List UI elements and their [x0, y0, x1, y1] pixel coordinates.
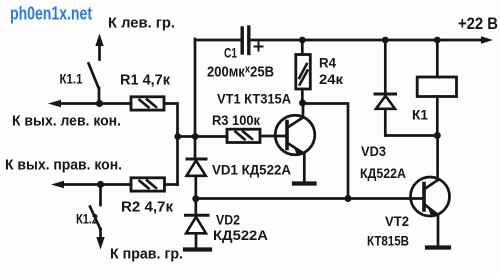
ground VD2 — [185, 247, 210, 251]
node junction relay/VD3 — [434, 132, 441, 139]
svg-text:VD3: VD3 — [361, 143, 386, 159]
switch K1.2 — [90, 185, 105, 250]
wire C1 left drop — [194, 39, 197, 157]
node junction R4 bus — [299, 37, 306, 44]
svg-text:C1: C1 — [224, 45, 237, 61]
svg-text:VD1 КД522А: VD1 КД522А — [212, 162, 291, 178]
wire VT1 collector — [302, 104, 305, 118]
diode VD3 — [375, 40, 396, 136]
svg-text:КД522А: КД522А — [360, 165, 406, 181]
svg-text:К вых. прав. кон.: К вых. прав. кон. — [5, 158, 122, 174]
wire R2 right — [165, 183, 178, 186]
node junction base wire — [345, 195, 352, 202]
svg-text:R3 100к: R3 100к — [212, 112, 261, 128]
capacitor C1 — [242, 27, 262, 54]
transistor VT1 — [275, 115, 315, 156]
svg-text:R1 4,7к: R1 4,7к — [120, 73, 171, 89]
diode VD1 — [187, 159, 207, 199]
resistor R3 — [227, 129, 260, 142]
wire VD3 bottom — [385, 134, 437, 137]
svg-text:24к: 24к — [319, 71, 344, 87]
node junction K1.1 — [96, 100, 103, 107]
svg-text:+22 В: +22 В — [458, 14, 498, 33]
wire VT2 emitter — [437, 215, 440, 246]
svg-text:VD2: VD2 — [216, 212, 240, 228]
svg-text:VT1 КТ315А: VT1 КТ315А — [217, 91, 291, 107]
wire R1 right — [164, 104, 178, 185]
transistor VT2 — [411, 177, 450, 218]
node junction VD3 bus — [382, 37, 389, 44]
resistor R4 — [296, 40, 311, 103]
svg-text:ph0en1x.net: ph0en1x.net — [10, 4, 92, 24]
node arrow left 2 — [51, 181, 64, 189]
node junction R1R2/R3 — [174, 133, 181, 140]
svg-text:К1: К1 — [412, 107, 428, 123]
wire R4 bottom to right — [303, 104, 348, 199]
svg-text:К прав. гр.: К прав. гр. — [110, 246, 183, 263]
switch K1.1 — [89, 34, 104, 104]
diode VD2 — [186, 199, 209, 248]
node +22V arrow — [481, 36, 493, 44]
resistor R2 — [131, 178, 165, 191]
wire relay to VT2 collector — [436, 136, 439, 181]
svg-text:200мкх25В: 200мкх25В — [207, 64, 274, 81]
wire R3 left — [178, 135, 228, 138]
svg-text:R4: R4 — [319, 55, 336, 71]
wire left output 1 — [60, 102, 131, 105]
wire base bus to VT2 — [196, 197, 424, 200]
node junction K1.2 — [97, 181, 104, 188]
node junction VD1/VD2 — [192, 195, 199, 202]
svg-text:К1.1: К1.1 — [60, 71, 83, 87]
node junction C1/R3 — [192, 133, 199, 140]
node arrow left 1 — [48, 100, 61, 108]
ground VT2 — [427, 245, 449, 249]
resistor R1 — [131, 97, 164, 110]
relay K1 coil — [417, 40, 456, 136]
ground VT1 — [294, 181, 315, 185]
svg-text:К лев. гр.: К лев. гр. — [108, 15, 175, 32]
node junction relay bus — [434, 37, 441, 44]
svg-text:VT2: VT2 — [385, 213, 409, 229]
wire left output 2 — [63, 183, 131, 186]
svg-text:R2 4,7к: R2 4,7к — [121, 200, 174, 216]
wire R3 to VT1 base — [260, 135, 287, 138]
svg-text:К вых. лев. кон.: К вых. лев. кон. — [12, 114, 121, 130]
svg-text:КТ815В: КТ815В — [367, 233, 409, 249]
svg-text:К1.2: К1.2 — [76, 211, 98, 227]
wire VT1 emitter — [303, 154, 306, 183]
node junction R4/VT1 — [299, 100, 306, 107]
wire top +22V bus — [195, 39, 482, 42]
svg-text:КД522А: КД522А — [213, 227, 268, 243]
